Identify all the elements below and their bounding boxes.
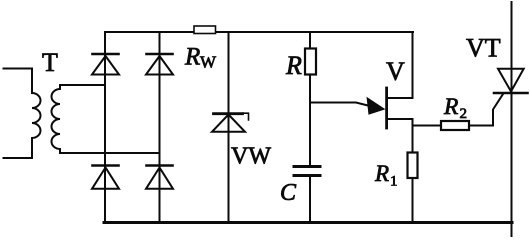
label RW <box>184 44 217 72</box>
svg-text:T: T <box>42 48 58 77</box>
resistor R <box>305 49 316 75</box>
wire right bridge column <box>159 32 161 222</box>
svg-text:VW: VW <box>231 144 271 170</box>
svg-text:VT: VT <box>466 33 501 62</box>
wire left bridge column <box>104 32 106 222</box>
diode bottom-right of bridge <box>146 166 173 189</box>
wire right rail (VT anode/cathode) <box>511 2 513 237</box>
wire top rail <box>105 31 413 33</box>
label R1 <box>374 161 398 190</box>
resistor R2 <box>441 121 469 130</box>
wire bottom rail <box>104 221 512 224</box>
wire VW column <box>228 32 230 222</box>
transistor V (UJT) <box>310 32 413 128</box>
svg-text:V: V <box>386 57 405 86</box>
diode bottom-left of bridge <box>92 166 119 189</box>
svg-text:W: W <box>200 53 217 72</box>
wire R2 right lead to gate <box>469 94 503 126</box>
wire R1 bottom lead <box>412 178 414 222</box>
svg-text:R: R <box>285 51 302 80</box>
svg-text:R: R <box>374 161 389 186</box>
resistor R1 <box>408 153 418 179</box>
transformer T primary winding <box>4 69 41 159</box>
svg-text:1: 1 <box>390 174 398 190</box>
svg-text:R: R <box>443 94 458 120</box>
transformer T secondary winding <box>52 85 160 153</box>
wire B1 node to R1 and R2 <box>412 126 414 153</box>
zener diode VW <box>212 113 249 132</box>
diode top-right of bridge <box>146 54 173 75</box>
svg-text:R: R <box>184 44 200 71</box>
svg-text:2: 2 <box>460 106 468 122</box>
wire R-C column <box>309 32 311 166</box>
svg-text:C: C <box>280 180 297 206</box>
resistor RW <box>194 26 216 34</box>
capacitor C <box>294 167 320 176</box>
thyristor VT <box>494 69 528 93</box>
wire R2 left lead <box>413 125 442 127</box>
diode top-left of bridge <box>92 54 119 75</box>
label R2 <box>443 94 467 122</box>
wire C bottom lead <box>309 176 311 222</box>
